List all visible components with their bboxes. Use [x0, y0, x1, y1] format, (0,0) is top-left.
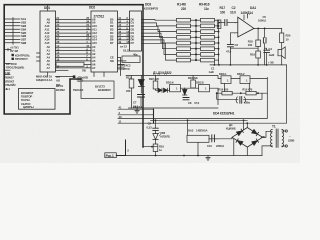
texts right of keyboard box: [56, 84, 65, 92]
pin numbers at DD2 right edge and DD3 left: [118, 16, 130, 44]
ground bus below speaker: [210, 64, 287, 66]
wires R18 R19 chain: [257, 28, 259, 65]
resistor R23 vertical: [191, 80, 196, 88]
figure caption box Ris.1: [105, 153, 117, 158]
resistors R1-R8 column: [177, 18, 191, 62]
top component labels row: [177, 3, 256, 16]
capacitor C3: [227, 45, 233, 47]
wire C7 to bottom bus: [140, 97, 142, 108]
big box vertical x=153.5: [153, 109, 155, 123]
labels under DD1 DD2: [36, 75, 88, 83]
gate DD3.8 symbol 1: [205, 87, 207, 91]
wire R23 stubs: [192, 76, 194, 89]
capacitor C7: [138, 95, 145, 98]
capacitor C8: [183, 98, 189, 100]
ladder output bus wires: [215, 20, 219, 60]
piezo BM1 brackets: [236, 97, 245, 103]
power rail lower: [151, 122, 287, 124]
op-amp inverting input wire: [230, 33, 237, 45]
resistor R22 vertical: [153, 81, 158, 89]
DD2 left inner pin labels: [92, 17, 97, 70]
bridge left vertex down wire: [233, 139, 235, 156]
DD2 bottom pin stubs: [94, 72, 104, 77]
wire gate2 output: [210, 88, 219, 104]
piezo sounder symbol: [217, 93, 262, 99]
label C9 0,33: [147, 122, 153, 130]
small texts above inner box: [56, 75, 111, 92]
resistor R18 vertical: [256, 40, 261, 47]
node labels and jumper pads lower-left: [5, 46, 30, 75]
bridge rectifier VD4 diamond: [232, 128, 263, 148]
IC DD1: [40, 11, 56, 72]
capacitor C5: [263, 38, 266, 43]
wire C2 to op-amp input: [227, 22, 238, 24]
wire output to R20: [281, 28, 283, 48]
gate DD3.1 DD3.2 symbol 1: [227, 79, 248, 83]
speaker BA1: [278, 47, 285, 59]
bridge diode 3 bar: [236, 139, 238, 142]
resistor R20 vertical: [280, 33, 284, 43]
DD4 pin number labels: [119, 106, 122, 124]
extra connector stubs lower-left: [4, 48, 11, 74]
diode D3 vertical: [183, 90, 188, 96]
wire C3 node to bus: [229, 48, 231, 65]
diode D2 cathode bar and wire: [168, 88, 170, 92]
wire from bus to R21 branch: [131, 76, 133, 80]
resistor R21 vertical: [129, 79, 134, 88]
op-amp power stub: [244, 14, 248, 20]
pin label 2 near vertical: [127, 149, 129, 153]
wire under DD1: [56, 76, 73, 78]
label zvonok: [244, 100, 251, 104]
DAC ladder fan-out wires DD3 to R1-R8: [142, 20, 177, 61]
bridge right vertex to transformer: [263, 131, 273, 137]
rail junction dots: [243, 119, 249, 124]
wires R14 R15 row: [217, 92, 268, 94]
capacitor C2: [225, 20, 227, 26]
label 12V: [261, 135, 266, 139]
IC DD2: [91, 11, 118, 72]
bridge diode 2: [252, 129, 258, 134]
DD2 right inner pin labels: [110, 17, 114, 63]
label ~220V: [288, 134, 294, 143]
DD4 pin wires left of rails: [118, 109, 154, 123]
wire C5 branch: [264, 28, 266, 65]
DD1 inner pin labels: [45, 17, 51, 70]
junction dot DAC output: [218, 22, 220, 24]
wire stub DD1 bottom: [47, 72, 49, 77]
terminal circles: [285, 130, 287, 132]
label DD3.6: [166, 81, 174, 85]
DD3 inner pin labels: [131, 17, 135, 45]
LED VD6: [153, 134, 158, 140]
wire gate1 to gate2: [181, 87, 199, 89]
label +5V: [268, 61, 274, 65]
keyboard block box lower-left: [19, 89, 56, 110]
capacitor C6 and label 16,0: [133, 105, 143, 109]
resistor R17 vertical on DAC bus: [217, 20, 221, 29]
label C10 2200,0: [207, 144, 224, 148]
LED VD6 branch wire: [155, 120, 157, 133]
label VD4 KC405: [226, 123, 236, 131]
wire R16 to bottom rail: [155, 152, 157, 156]
wire DAC to C2: [219, 22, 225, 24]
label DD3 K1533IR23: [144, 3, 159, 11]
junction dots on ground bus: [214, 64, 268, 66]
label R19: [250, 53, 255, 57]
label R20 10: [286, 34, 291, 42]
caption text Ris.1: [106, 154, 114, 158]
logic gate DD3.8: [199, 85, 210, 92]
wire ladder bottom drops to bus: [214, 60, 218, 65]
resistor R16 vertical: [153, 144, 158, 152]
label DD3.8: [196, 81, 204, 85]
pin numbers at DD2 left edge: [86, 16, 89, 68]
DD1 left pin stubs: [37, 53, 41, 61]
label D1-D3 KD522: [153, 71, 172, 75]
diode D1 cathode bar: [161, 88, 163, 92]
left vertical tiny text column: [5, 76, 17, 92]
feedback wire to divider: [230, 47, 258, 49]
logic gate DD3.6: [170, 85, 181, 92]
power rail upper: [151, 119, 248, 121]
wire row y70 under DD1: [56, 69, 69, 71]
IC DD3: [130, 11, 142, 51]
label R23: [188, 76, 198, 80]
tiny labels under R20 box: [118, 64, 131, 72]
gnd link wires near x=143: [143, 140, 157, 147]
inner empty box mid: [81, 81, 114, 99]
device boundary frame: [4, 5, 143, 114]
regulator DA2 box: [187, 135, 209, 142]
logic gate DD3.1: [221, 76, 231, 84]
jumper pad square 2: [12, 58, 14, 60]
ground symbol bottom: [206, 156, 210, 161]
ringer bottom bus wire: [129, 107, 219, 109]
label T1: [272, 125, 276, 129]
bridge diode 4 bar: [256, 139, 258, 142]
label R21: [126, 76, 131, 94]
bridge diode 4: [252, 141, 258, 146]
transformer secondary return wire: [262, 146, 272, 156]
wire caption to rail: [116, 140, 125, 156]
resistor R14 horizontal: [222, 91, 232, 95]
wire C4 branch: [265, 48, 267, 65]
label R14 200: [218, 88, 228, 92]
transformer T1 windings and core: [271, 129, 284, 147]
label C4 1мФ: [269, 47, 275, 57]
bridge bottom vertex wire: [246, 147, 248, 155]
label DD4 K1533LN1: [213, 111, 235, 115]
address bus wires DD1 to DD2: [56, 20, 92, 68]
pin numbers at DD1 right edge: [56, 16, 59, 68]
misc labels under DD3: [120, 45, 138, 57]
terminal circle lower: [285, 145, 287, 147]
bridge diode 1 bar: [241, 129, 243, 132]
ladder junction dots: [195, 19, 197, 61]
junction dot rail x155: [155, 119, 157, 121]
power bus vertical x=143: [142, 5, 144, 147]
label R18: [248, 40, 253, 47]
scan noise overlay: [0, 0, 1, 1]
junction dots gates row: [216, 92, 259, 94]
capacitor C10 polarized: [212, 135, 215, 142]
label C7 16,0: [133, 101, 139, 109]
ground symbol ringer: [135, 108, 139, 113]
ringer top bus wire: [126, 76, 221, 79]
dots on ladder output bus: [218, 25, 220, 55]
jumper pad squares: [12, 54, 14, 56]
junction dot under DD2: [73, 75, 76, 78]
bridge diode 1: [236, 131, 242, 136]
resistor R15 horizontal: [246, 91, 256, 95]
op-amp DA1 triangle: [238, 17, 254, 37]
op-amp output wire: [254, 27, 282, 29]
wire VD6 to R16: [155, 140, 157, 145]
regulator output wire to bridge: [209, 137, 232, 139]
label R22: [149, 77, 159, 81]
label on y70 wire: [82, 69, 86, 73]
diode D2: [164, 88, 168, 92]
wire gates row: [231, 78, 267, 80]
label R15 470: [242, 88, 252, 92]
wire R21 to bottom bus: [131, 88, 133, 108]
gate input stubs down: [224, 84, 249, 92]
logic gate DD3.2: [240, 76, 250, 84]
connector stub wires left column: [4, 18, 20, 45]
label DA2 142EN5A: [188, 128, 208, 132]
keyboard block text rows: [21, 91, 34, 109]
wire bus to R22: [155, 76, 157, 82]
capacitor C9: [153, 128, 159, 130]
bottom supply rail: [126, 155, 263, 157]
diode VD1 cathode bar: [138, 87, 144, 94]
connector stub labels: [21, 17, 27, 45]
capacitor C4: [264, 50, 270, 52]
diode D3 cathode bar: [183, 88, 188, 95]
junction dots bottom rail: [155, 155, 199, 157]
label VD6 AL307: [160, 131, 170, 139]
gates DD3.1 DD3.2 labels: [237, 72, 245, 76]
junction dot: [151, 146, 153, 148]
inner box right edge and bottom: [154, 78, 268, 119]
label C3 47,0: [226, 43, 238, 54]
LED VD6 arrows: [158, 133, 162, 137]
outer box right edge: [286, 65, 288, 123]
junction dot rail x187: [187, 119, 189, 121]
wire R22 to D1: [156, 89, 159, 90]
gate DD3.6 symbol 1: [176, 87, 178, 91]
op-amp input polarity marks: [234, 21, 236, 36]
output junction dots: [257, 28, 265, 30]
bridge diode 3: [237, 141, 243, 146]
label R16 1k: [159, 145, 164, 153]
resistor R19 vertical: [256, 51, 261, 58]
label C8 47,0: [188, 101, 200, 105]
resistors R9-R16 column: [201, 18, 215, 62]
data bus wires DD2 to DD3: [118, 20, 130, 76]
piezo BM1 plates: [240, 97, 242, 104]
transformer primary terminal wires: [282, 131, 285, 146]
label C1 1nF: [209, 67, 227, 76]
wire C3 stub: [229, 47, 231, 48]
ladder junction wires R1-R8 to R9-R16: [191, 20, 201, 60]
wire C10 series stubs: [209, 138, 218, 140]
bridge top vertex wire to rails: [244, 120, 248, 130]
resonator box between DD1 and DD2: [56, 62, 84, 66]
wire speaker to bus: [281, 56, 283, 65]
regulator ground pin: [197, 142, 199, 155]
diode VD1 vertical: [138, 76, 144, 87]
bridge diode 2 bar: [256, 132, 258, 135]
DD1 top pin stub: [47, 5, 49, 11]
regulator feed wire: [187, 120, 189, 135]
diode D1: [158, 88, 162, 92]
label C5 1000,0: [258, 15, 266, 23]
small box R20 under DD3: [122, 56, 140, 63]
